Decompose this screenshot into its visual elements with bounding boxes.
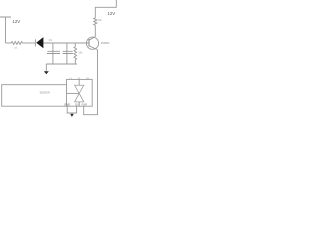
svg-text:2N3904: 2N3904 [101,42,110,45]
svg-text:PWR: PWR [82,103,88,106]
svg-text:GND: GND [64,103,70,107]
svg-text:12V: 12V [107,11,115,16]
svg-text:SENSOR: SENSOR [40,92,50,95]
svg-text:D1: D1 [49,38,53,42]
svg-text:12V: 12V [12,19,20,24]
svg-text:SIG: SIG [75,103,79,106]
